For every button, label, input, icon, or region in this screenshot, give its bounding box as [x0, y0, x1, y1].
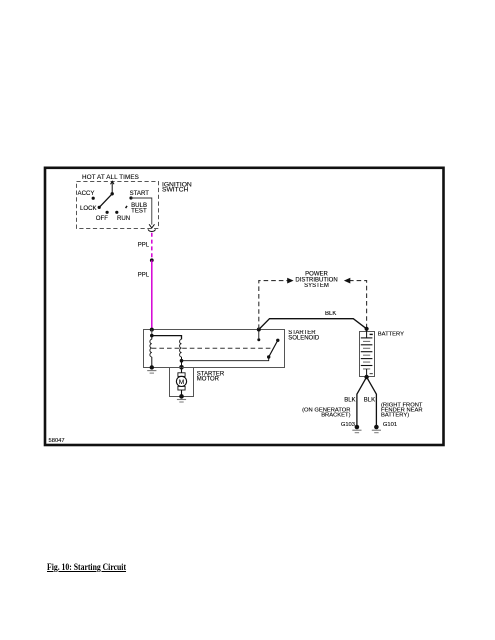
- wire to switch lever: [182, 357, 269, 361]
- battery cells: [366, 329, 368, 338]
- wire PPL solid: [151, 260, 153, 330]
- svg-text:RUN: RUN: [117, 215, 130, 222]
- caption Fig. 10: [47, 562, 126, 573]
- solenoid switch lever: [267, 355, 270, 358]
- wire BLK battery to G101: [367, 377, 377, 425]
- ignition contacts (dots): [92, 197, 95, 200]
- wire PPL dashed: [151, 233, 153, 259]
- ignition switch dashed box: [77, 182, 159, 229]
- svg-text:M: M: [179, 379, 185, 386]
- svg-text:LOCK: LOCK: [80, 205, 97, 212]
- solenoid switch fixed contact: [257, 328, 261, 332]
- svg-text:MOTOR: MOTOR: [197, 377, 220, 383]
- svg-text:PPL: PPL: [138, 273, 150, 279]
- svg-text:BRACKET): BRACKET): [321, 412, 350, 418]
- starter motor box: [170, 368, 194, 397]
- ground (starter motor): [179, 394, 184, 399]
- node: solenoid to motor: [179, 365, 184, 370]
- mechanical linkage (dashed): [152, 347, 272, 349]
- ground G101: [374, 425, 379, 430]
- svg-text:BLK: BLK: [364, 398, 375, 404]
- ground G103: [355, 425, 360, 430]
- coil L2 (hold-in winding): [180, 339, 182, 357]
- motor M1: [181, 367, 183, 373]
- coil L1 (pull-in winding): [151, 336, 153, 340]
- battery box: [360, 332, 375, 377]
- svg-text:BATTERY): BATTERY): [381, 412, 409, 418]
- svg-text:BATTERY: BATTERY: [378, 331, 404, 337]
- ground (solenoid coil): [150, 365, 154, 369]
- svg-text:PPL: PPL: [138, 243, 150, 249]
- arrow to HOT AT ALL TIMES: [111, 182, 113, 194]
- node: battery negative: [364, 375, 368, 379]
- starter solenoid box: [144, 330, 285, 368]
- node: battery positive: [365, 327, 369, 331]
- svg-text:58047: 58047: [49, 438, 65, 444]
- power distribution dashed branch left: [259, 281, 288, 329]
- wire BLK solenoid to battery: [259, 319, 367, 330]
- svg-text:SOLENOID: SOLENOID: [288, 336, 320, 342]
- node: coil output junction: [180, 359, 184, 363]
- splice node: [150, 258, 154, 262]
- svg-text:START: START: [130, 190, 150, 197]
- svg-text:OFF: OFF: [96, 215, 108, 222]
- svg-text:HOT AT ALL TIMES: HOT AT ALL TIMES: [82, 174, 139, 181]
- svg-text:G101: G101: [383, 422, 397, 428]
- power distribution dashed branch right: [350, 281, 367, 329]
- svg-text:SWITCH: SWITCH: [162, 186, 189, 193]
- svg-text:TEST: TEST: [131, 207, 147, 214]
- svg-text:ACCY: ACCY: [78, 190, 95, 197]
- wire from START to connector: [131, 198, 152, 225]
- node: coil feed junction: [150, 328, 154, 332]
- wire to right coil: [152, 336, 182, 340]
- svg-text:G103: G103: [341, 422, 355, 428]
- svg-text:BLK: BLK: [325, 311, 336, 317]
- svg-text:SYSTEM: SYSTEM: [304, 283, 329, 289]
- switch lever: [99, 194, 112, 208]
- connector: [148, 229, 155, 231]
- svg-text:BLK: BLK: [344, 398, 355, 404]
- wire BLK battery to G103: [357, 377, 367, 425]
